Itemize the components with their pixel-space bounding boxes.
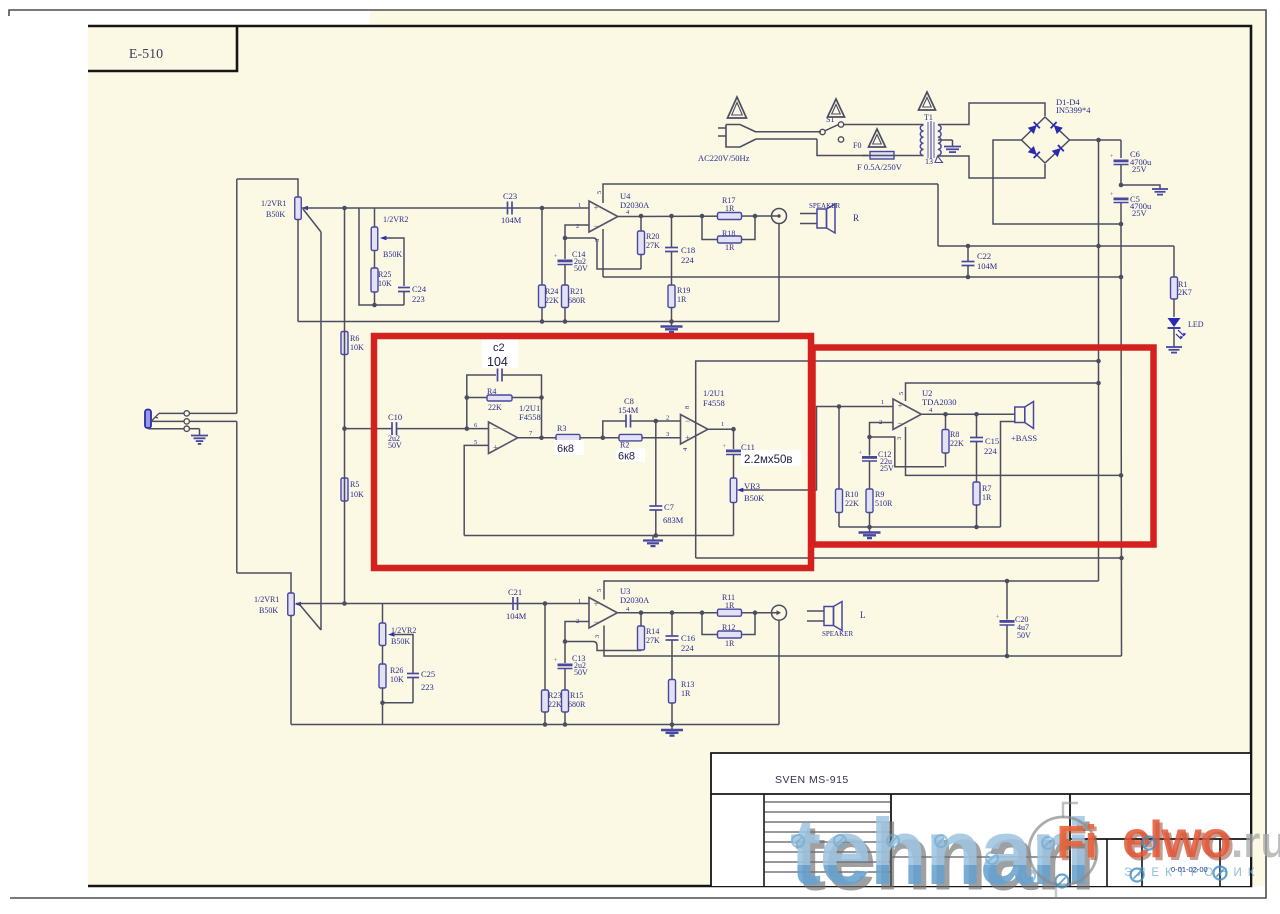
svg-text:50V: 50V <box>574 668 588 677</box>
svg-text:27K: 27K <box>646 636 660 645</box>
red highlight box 2 <box>813 348 1154 545</box>
svg-text:510R: 510R <box>875 499 893 508</box>
wire V+ rail down from amp top rail <box>937 184 939 246</box>
svg-text:25V: 25V <box>1132 164 1148 174</box>
svg-text:10K: 10K <box>350 490 364 499</box>
node U4 output <box>639 214 644 219</box>
svg-text:F 0.5A/250V: F 0.5A/250V <box>857 162 903 172</box>
capacitor C8 branch <box>603 421 626 438</box>
svg-text:SPEAKER: SPEAKER <box>809 202 840 210</box>
node C6-C5 midpoint <box>1119 183 1124 188</box>
svg-text:3: 3 <box>594 635 601 638</box>
svg-text:104M: 104M <box>501 215 522 225</box>
ground below filter rail <box>652 536 654 541</box>
svg-text:+: + <box>594 599 599 609</box>
U3 output wire <box>617 612 779 614</box>
wire to VR1 bottom <box>237 573 291 593</box>
capacitor C25 <box>407 673 419 675</box>
U2 inverting input wire <box>870 423 894 456</box>
svg-text:3: 3 <box>896 437 903 440</box>
node bridge positive <box>1096 138 1101 143</box>
op-amp U2 TDA2030 <box>893 399 921 430</box>
resistor R9 <box>866 489 873 513</box>
title block outer lines <box>711 753 1250 886</box>
svg-text:B50K: B50K <box>383 250 402 259</box>
node U2 feedback tap <box>867 435 872 440</box>
svg-text:SVEN MS-915: SVEN MS-915 <box>775 774 849 786</box>
U4 output wire <box>618 215 779 218</box>
VR3 bottom wire <box>733 503 735 536</box>
AC plug cable wires <box>756 131 821 133</box>
U2 V- pin3 stub and rail <box>906 427 1122 475</box>
op-amp U3 D2030A <box>589 598 617 629</box>
resistor R8 <box>943 412 948 417</box>
svg-text:1R: 1R <box>982 493 992 502</box>
node R23 top <box>543 601 548 606</box>
node R6 top <box>342 206 347 211</box>
signal rail L channel <box>296 603 589 605</box>
svg-text:1/2VR1: 1/2VR1 <box>261 199 286 208</box>
svg-text:3: 3 <box>666 431 669 438</box>
svg-text:683M: 683M <box>663 515 684 525</box>
svg-text:104: 104 <box>487 355 508 369</box>
warning triangle at plug <box>728 97 747 118</box>
svg-text:R2: R2 <box>620 441 629 450</box>
svg-text:1R: 1R <box>681 689 691 698</box>
svg-text:R: R <box>853 213 859 223</box>
wire secondary bottom to bridge <box>938 156 1045 178</box>
watermark circle logo <box>1029 817 1097 885</box>
svg-text:6к8: 6к8 <box>557 443 574 455</box>
wire top rail to VR1 <box>237 179 298 197</box>
svg-text:elwo: elwo <box>1122 811 1230 869</box>
title block row: SVEN MS-915 divider <box>711 793 1250 795</box>
svg-text:27K: 27K <box>646 241 660 250</box>
svg-text:6к8: 6к8 <box>618 451 635 463</box>
resistor R4 <box>467 397 487 399</box>
svg-text:AC220V/50Hz: AC220V/50Hz <box>698 153 750 163</box>
signal ground rail L channel <box>291 724 779 726</box>
node R13 bottom <box>670 722 675 727</box>
svg-text:2: 2 <box>576 223 579 230</box>
svg-text:F0: F0 <box>853 141 861 150</box>
filter ground rail <box>464 535 733 537</box>
white annotation 6k8 first <box>554 440 584 455</box>
svg-text:−: − <box>594 221 599 231</box>
U1 power box <box>696 361 1099 558</box>
signal ground rail R channel <box>298 321 779 323</box>
node C7 tap <box>654 419 659 424</box>
svg-text:0-01-02-00: 0-01-02-00 <box>1171 865 1208 874</box>
svg-text:TDA2030: TDA2030 <box>922 397 956 407</box>
svg-text:10K: 10K <box>378 279 392 288</box>
svg-text:680R: 680R <box>568 700 586 709</box>
ground below U2 rail <box>869 527 871 533</box>
node V- rail at GND vertical <box>1119 275 1124 280</box>
svg-text:R13: R13 <box>681 680 694 689</box>
svg-text:+BASS: +BASS <box>1011 433 1037 443</box>
resistor R10 <box>838 407 840 490</box>
svg-text:2K7: 2K7 <box>1178 288 1192 297</box>
svg-text:C18: C18 <box>681 245 695 255</box>
white annotation c2 104 <box>482 339 518 368</box>
wire C10 to op-amp U1a <box>397 428 489 430</box>
svg-text:R25: R25 <box>378 270 391 279</box>
feedback capacitor c2 wire <box>467 375 496 429</box>
title block vertical dividers <box>763 794 765 886</box>
GND vertical rail right side <box>1120 224 1123 656</box>
ground below LED <box>1166 346 1182 348</box>
wire VR1 bottom to gnd rail <box>297 220 299 322</box>
wire output to gnd rail <box>778 224 780 322</box>
resistor R18 parallel <box>702 216 718 240</box>
capacitor C21 <box>512 597 514 610</box>
svg-text:1: 1 <box>881 399 884 406</box>
capacitor C10 <box>345 428 393 430</box>
ground below R13 <box>671 725 673 731</box>
capacitor C22 <box>967 246 969 261</box>
svg-text:Fi: Fi <box>1057 816 1098 868</box>
svg-text:R6: R6 <box>350 334 359 343</box>
V+ horizontal rail y246 <box>938 245 1174 247</box>
V+ vertical rail right side <box>1098 140 1100 581</box>
svg-text:22K: 22K <box>845 499 859 508</box>
resistor R15 <box>562 690 569 712</box>
svg-text:F4558: F4558 <box>519 412 541 422</box>
svg-text:50V: 50V <box>1017 631 1031 640</box>
capacitor C5 <box>1114 198 1129 201</box>
U4 inverting input wire <box>565 225 589 259</box>
title block background <box>711 753 1250 886</box>
wire sleeve to ground <box>189 428 199 430</box>
fuse F0 <box>870 152 894 160</box>
ganged shaft diagonal bottom <box>300 605 321 630</box>
VR2 bottom branch <box>382 604 384 624</box>
svg-text:1R: 1R <box>677 295 687 304</box>
svg-text:−: − <box>594 617 599 627</box>
svg-text:B50K: B50K <box>391 637 410 646</box>
svg-text:C15: C15 <box>985 436 999 446</box>
resistor R23 <box>544 604 546 691</box>
diode D2 <box>1054 125 1063 134</box>
wire secondary top to bridge <box>938 103 1045 125</box>
capacitor C24 <box>398 287 410 289</box>
svg-text:1/2U1: 1/2U1 <box>703 388 724 398</box>
svg-text:50V: 50V <box>388 441 402 450</box>
node A <box>601 435 606 440</box>
warning triangle at S1 <box>828 99 845 117</box>
svg-text:C16: C16 <box>681 633 695 643</box>
U4 V- pin3 stub <box>602 229 604 277</box>
resistor R24 <box>541 208 543 285</box>
svg-text:B50K: B50K <box>259 606 278 615</box>
svg-text:C21: C21 <box>508 587 522 597</box>
decoupling cap C20 <box>1005 579 1010 584</box>
resistor R19 <box>668 285 675 308</box>
speaker +BASS <box>1015 407 1025 423</box>
ground below R19 <box>671 322 673 327</box>
U1a plus input wire <box>464 445 488 535</box>
svg-text:R12: R12 <box>722 623 735 632</box>
feedback wire to R14 <box>565 642 641 651</box>
watermark elwo <box>1122 811 1233 872</box>
V- rail to amplifier U4 <box>603 276 1121 278</box>
node filter input <box>465 426 470 431</box>
svg-text:1/2VR2: 1/2VR2 <box>391 626 416 635</box>
svg-text:104M: 104M <box>977 261 998 271</box>
resistor R2 <box>619 434 642 441</box>
svg-text:IN5399*4: IN5399*4 <box>1056 105 1091 115</box>
wire bridge positive output <box>1070 139 1122 141</box>
svg-text:R14: R14 <box>646 627 659 636</box>
potentiometer 1/2VR1 top <box>295 197 302 220</box>
capacitor C13 <box>558 664 573 667</box>
potentiometer 1/2VR2 top <box>374 208 376 227</box>
title block right cells <box>1070 838 1250 840</box>
svg-text:L: L <box>860 610 866 620</box>
resistor R11 <box>718 609 742 616</box>
speaker return wire <box>1001 422 1015 528</box>
ganged pot shaft line <box>320 232 322 630</box>
resistor R17 <box>718 213 742 220</box>
signal rail R channel y208 <box>302 207 589 209</box>
jack sleeve contact <box>147 427 149 430</box>
watermark small circle marks <box>792 835 804 847</box>
svg-text:22K: 22K <box>950 439 964 448</box>
wire ring to left vertical <box>189 420 236 422</box>
U2 output wire <box>921 413 1014 415</box>
speaker R channel <box>800 213 817 215</box>
output terminal circle L <box>772 605 787 620</box>
svg-text:F4558: F4558 <box>703 398 725 408</box>
wire jack ring down to L pot <box>236 421 238 573</box>
svg-text:5: 5 <box>596 191 603 194</box>
node mixer tap bottom <box>342 601 347 606</box>
warning triangle at T1 <box>919 92 936 110</box>
VR3 wiper wire to U2 <box>743 407 893 491</box>
wire bridge negative to rail <box>993 140 1121 224</box>
svg-text:50V: 50V <box>574 264 588 273</box>
svg-text:−: − <box>493 424 498 434</box>
svg-text:T1: T1 <box>924 113 933 122</box>
svg-text:22K: 22K <box>488 403 502 412</box>
U3 V- pin3 stub and rail <box>604 626 1122 657</box>
svg-text:−: − <box>685 416 690 426</box>
node R26 bottom <box>380 701 385 706</box>
node feedback tap <box>563 236 568 241</box>
AC plug <box>718 125 756 148</box>
svg-text:+: + <box>898 401 903 411</box>
svg-text:224: 224 <box>984 446 998 456</box>
jack tip contact <box>159 412 184 414</box>
capacitor C23 <box>507 202 509 215</box>
feedback wire to R20 <box>565 238 641 269</box>
svg-text:R7: R7 <box>982 484 991 493</box>
jack switch contact <box>152 413 159 420</box>
output terminal circle R <box>772 209 787 224</box>
white annotation 2.2mx50v <box>741 450 801 466</box>
svg-text:10K: 10K <box>350 343 364 352</box>
svg-text:224: 224 <box>681 643 695 653</box>
U3 inverting input wire <box>565 622 589 664</box>
svg-text:c2: c2 <box>493 342 505 354</box>
svg-text:1R: 1R <box>725 639 735 648</box>
U2 feedback wire <box>870 437 945 467</box>
capacitor C18 <box>671 216 673 248</box>
capacitor C15 <box>974 412 979 417</box>
svg-text:104M: 104M <box>506 611 527 621</box>
svg-text:D2030A: D2030A <box>620 595 650 605</box>
wire fuse to transformer primary bottom <box>902 155 924 157</box>
op-amp U1a F4558 <box>489 422 518 454</box>
svg-text:E-510: E-510 <box>129 47 163 62</box>
title block revision rows <box>764 801 891 803</box>
bridge rectifier D1-D4 diamond <box>1022 117 1070 163</box>
capacitor C14 <box>558 260 573 263</box>
svg-text:1: 1 <box>721 421 724 428</box>
svg-text:+: + <box>493 443 498 453</box>
svg-text:1R: 1R <box>725 204 735 213</box>
svg-text:LED: LED <box>1188 320 1204 329</box>
svg-text:223: 223 <box>412 294 425 304</box>
U3 V+ pin5 stub and top rail <box>604 581 1099 600</box>
resistor R3 <box>556 434 580 441</box>
potentiometer 1/2VR2 bottom <box>379 623 386 646</box>
svg-text:5: 5 <box>596 589 603 592</box>
resistor R13 <box>669 680 676 704</box>
svg-text:B50K: B50K <box>744 493 765 503</box>
svg-text:R8: R8 <box>950 430 959 439</box>
svg-text:R5: R5 <box>350 480 359 489</box>
svg-text:154M: 154M <box>618 405 639 415</box>
resistor R12 parallel <box>702 613 718 635</box>
capacitor C7 <box>655 421 657 506</box>
wire plug bottom to fuse <box>817 139 868 156</box>
svg-text:.ru: .ru <box>1231 818 1280 867</box>
svg-text:R9: R9 <box>875 490 884 499</box>
wire R3 to node A <box>580 437 619 439</box>
capacitor C12 <box>862 456 877 459</box>
svg-text:R15: R15 <box>570 691 583 700</box>
svg-text:8: 8 <box>684 406 691 409</box>
resistor R1 <box>1173 246 1175 277</box>
resistor R14 <box>640 613 642 626</box>
wire VR2 branch return <box>359 208 404 305</box>
diode D4 <box>1052 148 1061 157</box>
ground at jack <box>199 429 201 436</box>
U2 V+ pin5 stub and box <box>906 383 1099 401</box>
U2 ground rail <box>839 526 1001 528</box>
svg-text:R23: R23 <box>548 691 561 700</box>
svg-text:2: 2 <box>666 415 669 422</box>
svg-text:2.2мх50в: 2.2мх50в <box>744 454 793 466</box>
resistor R20 <box>640 216 642 231</box>
svg-text:25V: 25V <box>1132 208 1148 218</box>
E-510 title box <box>88 26 237 71</box>
resistor R25 <box>374 251 376 269</box>
red highlight box 1 <box>374 336 811 568</box>
resistor R5 <box>341 478 348 501</box>
resistor R6 <box>341 332 348 355</box>
capacitor C6 <box>1120 140 1122 158</box>
ground at transformer <box>952 140 954 147</box>
svg-text:13: 13 <box>925 157 933 166</box>
wire VR1 wiper diagonal to ganged shaft <box>303 209 321 232</box>
svg-text:680R: 680R <box>568 296 586 305</box>
svg-text:+: + <box>594 203 599 213</box>
svg-text:C7: C7 <box>664 502 674 512</box>
svg-text:R24: R24 <box>545 287 558 296</box>
U1a output wire <box>518 437 556 439</box>
svg-text:−: − <box>898 419 903 429</box>
svg-text:1: 1 <box>578 598 581 605</box>
switch S1 <box>820 129 825 134</box>
svg-text:1: 1 <box>578 202 581 209</box>
node C22 bottom <box>966 275 971 280</box>
svg-text:25V: 25V <box>880 464 894 473</box>
svg-text:223: 223 <box>421 682 434 692</box>
warning triangle at fuse <box>869 129 886 147</box>
watermark Fi orange <box>1057 816 1100 871</box>
svg-text:224: 224 <box>681 255 695 265</box>
svg-text:R3: R3 <box>557 424 566 433</box>
speaker L channel <box>807 610 824 612</box>
svg-text:C23: C23 <box>503 191 517 201</box>
svg-text:R21: R21 <box>570 287 583 296</box>
jack ring contact <box>151 420 184 422</box>
U1b output wire <box>708 428 734 430</box>
svg-text:+: + <box>685 433 690 443</box>
svg-text:C10: C10 <box>388 412 402 422</box>
LED <box>1168 318 1181 327</box>
svg-text:10K: 10K <box>390 675 404 684</box>
U1 power box bottom <box>696 557 1122 559</box>
svg-text:1/2VR1: 1/2VR1 <box>254 595 279 604</box>
svg-text:C24: C24 <box>412 284 427 294</box>
op-amp U1b F4558 <box>681 415 708 445</box>
potentiometer VR3 <box>730 478 737 503</box>
svg-text:R10: R10 <box>845 490 858 499</box>
svg-text:1/2VR2: 1/2VR2 <box>383 215 408 224</box>
svg-text:C22: C22 <box>977 251 991 261</box>
potentiometer 1/2VR1 bottom <box>288 593 295 616</box>
resistor R7 <box>973 482 980 505</box>
svg-text:B50K: B50K <box>266 210 285 219</box>
svg-text:SPEAKER: SPEAKER <box>822 630 853 638</box>
node C22 top <box>966 244 971 249</box>
node R19 bottom <box>669 319 674 324</box>
node L feedback tap <box>563 639 568 644</box>
capacitor C11 <box>733 429 735 449</box>
U4 V+ pin5 stub and top rail <box>603 184 938 203</box>
wire jack tip up to R pot box <box>236 179 238 413</box>
node R25 bottom <box>372 303 377 308</box>
svg-text:R4: R4 <box>487 387 496 396</box>
wire tip to left vertical <box>189 412 236 414</box>
node C18 top <box>669 214 674 219</box>
transformer T1 <box>920 125 923 131</box>
wire output circle to gnd rail <box>778 620 780 724</box>
svg-text:D2030A: D2030A <box>620 200 650 210</box>
capacitor C16 <box>670 610 675 615</box>
op-amp U4 D2030A <box>589 201 618 232</box>
svg-text:R26: R26 <box>390 666 403 675</box>
diode D1 <box>1028 125 1037 134</box>
node C10 branch <box>342 426 347 431</box>
svg-text:R18: R18 <box>722 229 735 238</box>
wire R2 to op-amp U1b plus input <box>642 437 681 439</box>
audio input jack <box>145 410 151 429</box>
